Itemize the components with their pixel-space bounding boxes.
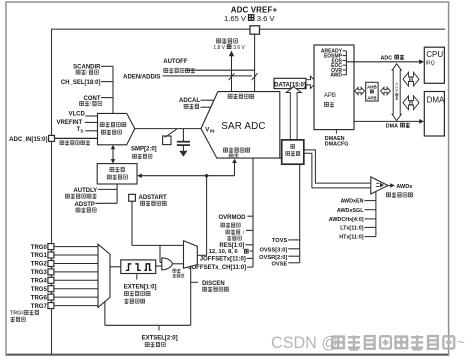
wire start signal to start-stop box <box>137 173 234 178</box>
svg-text:AUTOFF: AUTOFF <box>163 59 188 65</box>
svg-text:12, 10, 8, 6: 12, 10, 8, 6 <box>209 249 239 255</box>
svg-text:S: S <box>80 129 83 134</box>
block DMA <box>424 92 445 137</box>
svg-text:VREFINT: VREFINT <box>57 120 83 126</box>
wire CH_SEL <box>101 81 113 83</box>
junction start/trigger <box>205 174 208 177</box>
block input selection & scan control mux <box>98 113 135 144</box>
block AHB to APB bridge <box>366 82 378 101</box>
svg-text:CH_SEL[18:0]: CH_SEL[18:0] <box>61 80 101 86</box>
svg-text:B: B <box>396 89 398 93</box>
block CPU IRQ <box>424 47 444 83</box>
fat arrow DATA to APB <box>306 76 316 88</box>
fat arrow oversampler to DATA <box>286 87 301 140</box>
svg-text:V: V <box>205 127 209 133</box>
label ADSTART 软件触发器 <box>139 195 168 206</box>
svg-text:TRG1: TRG1 <box>31 253 48 259</box>
svg-text:ADEN/ADDIS: ADEN/ADDIS <box>123 75 160 81</box>
label AUTOFF 自动关闭模式 <box>163 59 195 73</box>
svg-text:1.65 V: 1.65 V <box>224 14 247 23</box>
block SW/HW trigger mux <box>184 241 198 268</box>
svg-text:SAR ADC: SAR ADC <box>221 121 265 132</box>
wire ADSTART down and right to trigger mux <box>132 201 184 245</box>
svg-text:JOFFSETx_CH[11:0]: JOFFSETx_CH[11:0] <box>188 265 246 271</box>
svg-text:TRG2: TRG2 <box>31 262 48 268</box>
svg-text:ADC: ADC <box>381 55 393 61</box>
connector square ADC_IN <box>49 135 55 141</box>
block TRG input mux <box>98 244 110 307</box>
label EXTSEL[2:0] 触发选择 <box>142 336 178 347</box>
comparator analog watchdog <box>371 177 388 194</box>
label DMAEN DMACFG <box>325 130 349 148</box>
svg-text:SMP[2:0]: SMP[2:0] <box>131 147 157 153</box>
label VREFINT <box>57 120 83 126</box>
wire EXTSEL select path <box>105 266 191 330</box>
svg-text:OVSR[2:0]: OVSR[2:0] <box>259 255 287 261</box>
switch (sampling) <box>163 129 177 144</box>
label ADSTP 停止转换 <box>75 202 97 212</box>
svg-text:APB: APB <box>324 93 336 99</box>
label OFFSETx[11:0] <box>200 257 246 263</box>
connector square ADSTART <box>129 194 136 201</box>
label 左对齐/右对齐 <box>226 230 245 241</box>
label SAR ADC <box>221 121 265 132</box>
wire OVRMOD bracket vertical <box>252 158 254 267</box>
label CONT 单次/连续 <box>80 96 102 108</box>
svg-text:AWDxSGL: AWDxSGL <box>337 208 364 214</box>
svg-text:ADSTP: ADSTP <box>75 202 95 208</box>
label VLCD <box>68 112 85 118</box>
label CH_SEL[18:0] <box>61 80 101 86</box>
svg-text:RES[1:0]: RES[1:0] <box>219 243 244 249</box>
label RES[1:0] 12,10,8,6 <box>209 243 249 255</box>
block trigger edge selection (waveforms) <box>121 260 156 274</box>
svg-text:LTx[11:0]: LTx[11:0] <box>340 226 363 232</box>
svg-text:HTx[11:0]: HTx[11:0] <box>339 235 363 241</box>
labels interrupt flags <box>321 49 343 79</box>
wire mux output to VIN <box>135 128 201 130</box>
double arrow AHB bridge to bus <box>381 87 391 94</box>
svg-text:AUTDLY: AUTDLY <box>73 188 97 194</box>
label ADC_IN[15:0] <box>9 137 47 143</box>
svg-text:TRG0: TRG0 <box>31 245 48 251</box>
svg-text:IRQ: IRQ <box>426 61 435 67</box>
wire converted data to oversampler <box>280 157 282 159</box>
label analog supply 模拟电源 1.8V-3.6V <box>213 38 245 50</box>
svg-text:TRG5: TRG5 <box>31 287 48 293</box>
ground <box>179 151 187 157</box>
label ADEN/ADDIS <box>123 75 160 81</box>
watermark CSDN <box>271 334 465 352</box>
wires OVRMOD bracket ticks <box>246 216 254 267</box>
svg-text:TRG4: TRG4 <box>31 279 48 285</box>
wire CONT <box>101 97 113 99</box>
label 模拟看门狗 <box>386 192 412 197</box>
wire start arrow into SAR <box>232 159 237 176</box>
double arrow bus to CPU <box>403 72 419 86</box>
svg-text:APB: APB <box>367 96 376 101</box>
wire control bracket vertical <box>112 66 114 113</box>
svg-text:AWDCHx[4:0]: AWDCHx[4:0] <box>329 217 364 223</box>
double arrow APB-AHB <box>355 87 365 94</box>
svg-text:DMACFG: DMACFG <box>325 142 349 148</box>
svg-text:AWDxEN: AWDxEN <box>340 199 363 205</box>
label ADC VREF+ <box>231 6 278 15</box>
wire ADEN/ADDIS <box>163 75 253 77</box>
label AUTDLY 自动延时转换 <box>65 188 97 198</box>
wire VLCD <box>85 115 97 117</box>
bus slash marks <box>229 73 258 80</box>
labels AWD config <box>329 199 364 241</box>
block APB interface <box>314 45 354 130</box>
wire DMA request <box>354 119 424 129</box>
labels TRG0..TRG7 + connector squares <box>31 244 98 310</box>
svg-text:CPU: CPU <box>426 50 443 59</box>
label 1.65 V to 3.6 V <box>224 14 275 23</box>
svg-text:DMA: DMA <box>427 96 445 105</box>
label SMP[2:0] 采样时间 <box>131 147 157 159</box>
svg-text:DISCEN: DISCEN <box>202 281 225 287</box>
label OFFSETx_CH[11:0] <box>188 265 246 271</box>
wires AWD ticks + bracket <box>365 191 376 236</box>
label TRGi mapped to product <box>10 310 39 322</box>
connector square VREF+ <box>250 26 260 34</box>
svg-text:IN: IN <box>210 129 215 134</box>
svg-text:TRG3: TRG3 <box>31 270 48 276</box>
wire ADCAL ticks <box>201 100 214 107</box>
labels TOVS OVSS OVSR OVSE <box>259 238 287 267</box>
label OVRMOD 溢出模式 <box>219 215 247 228</box>
svg-text:AWD: AWD <box>330 73 342 79</box>
wire TS <box>85 130 97 132</box>
svg-text:TOVS: TOVS <box>272 238 288 244</box>
wire ADSTP + bracket <box>96 184 118 203</box>
label 硬件触发器 <box>173 269 184 278</box>
block start and stop control <box>97 164 137 184</box>
label SCANDIR 递增/递减 <box>73 65 101 77</box>
double arrow bus to DMA <box>403 96 419 110</box>
wire edge select to OR <box>156 265 162 267</box>
svg-text:EXTEN[1:0]: EXTEN[1:0] <box>124 284 157 290</box>
svg-text:VLCD: VLCD <box>68 112 85 118</box>
wire SCANDIR <box>101 65 113 67</box>
label 转换的数据 启动 <box>224 148 250 159</box>
svg-text:3.6 V: 3.6 V <box>233 45 245 51</box>
svg-text:OVRMOD: OVRMOD <box>219 215 247 221</box>
label EXTEN[1:0] 触发使能和 边沿选择 <box>124 274 157 304</box>
svg-text:OVSE: OVSE <box>271 261 287 267</box>
wire VREFINT <box>85 121 98 123</box>
svg-text:ADCAL: ADCAL <box>179 98 200 104</box>
ADC block boundary (top + left edge) <box>52 29 446 354</box>
svg-text:DMA: DMA <box>386 123 398 129</box>
wire analog supply arrow (up) <box>229 51 234 92</box>
wire ADC interrupt to CPU <box>346 55 424 64</box>
wire AUTOFF <box>186 69 255 71</box>
label 偏置和参考 <box>228 94 254 99</box>
wire ADSTART branch into OR <box>160 245 162 262</box>
svg-text:CSDN @: CSDN @ <box>271 334 338 352</box>
svg-text:OVSS[3:0]: OVSS[3:0] <box>259 248 287 254</box>
svg-text:TRG6: TRG6 <box>31 295 48 301</box>
wire trigger up <box>197 176 206 256</box>
AHB bus vertical double arrow <box>392 64 401 121</box>
svg-text:ADC_IN[15:0]: ADC_IN[15:0] <box>9 137 47 143</box>
label VIN <box>205 127 214 133</box>
svg-text:JOFFSETx[11:0]: JOFFSETx[11:0] <box>200 257 246 263</box>
wires OVS ticks <box>288 240 299 263</box>
wire analog input channel <box>55 137 98 139</box>
label 模拟输入通道 <box>60 140 90 145</box>
svg-text:~: ~ <box>457 334 465 350</box>
wire OVS bracket vertical <box>299 164 301 263</box>
svg-text:AWDx: AWDx <box>396 184 413 190</box>
svg-text:ADSTART: ADSTART <box>139 195 168 201</box>
wire data path to watchdog (double) <box>304 150 371 188</box>
block DATA[15:0] register <box>274 78 306 88</box>
label TS <box>77 127 84 133</box>
wire OR to trigger mux <box>173 263 184 265</box>
label APB 接口 <box>324 93 336 107</box>
capacitor sample/hold <box>177 129 190 151</box>
OR gate hardware trigger <box>162 258 173 270</box>
wire mux to start-stop (double arrow) <box>111 145 116 164</box>
label DISCEN 不连续模式 <box>191 281 229 291</box>
svg-text:1.8 V: 1.8 V <box>213 45 225 51</box>
wires flag ticks <box>343 51 347 75</box>
block oversampler 过采样器 <box>282 140 304 164</box>
block SAR ADC <box>201 92 280 159</box>
svg-text:TRG7: TRG7 <box>31 304 48 310</box>
svg-text:3.6 V: 3.6 V <box>257 14 276 23</box>
svg-text:TRGi: TRGi <box>10 311 23 317</box>
label ADCAL 自校准 <box>179 98 200 109</box>
wire AUTDLY <box>98 188 117 190</box>
wire mux to edge select <box>110 266 121 268</box>
figure bottom rule <box>7 353 448 355</box>
wire VREF+ vertical to SAR ADC <box>254 34 256 91</box>
wire AWDx output <box>388 183 413 190</box>
svg-text:DATA[15:0]: DATA[15:0] <box>274 82 306 88</box>
svg-text:AHB: AHB <box>367 84 377 89</box>
svg-text:EXTSEL[2:0]: EXTSEL[2:0] <box>142 336 178 342</box>
